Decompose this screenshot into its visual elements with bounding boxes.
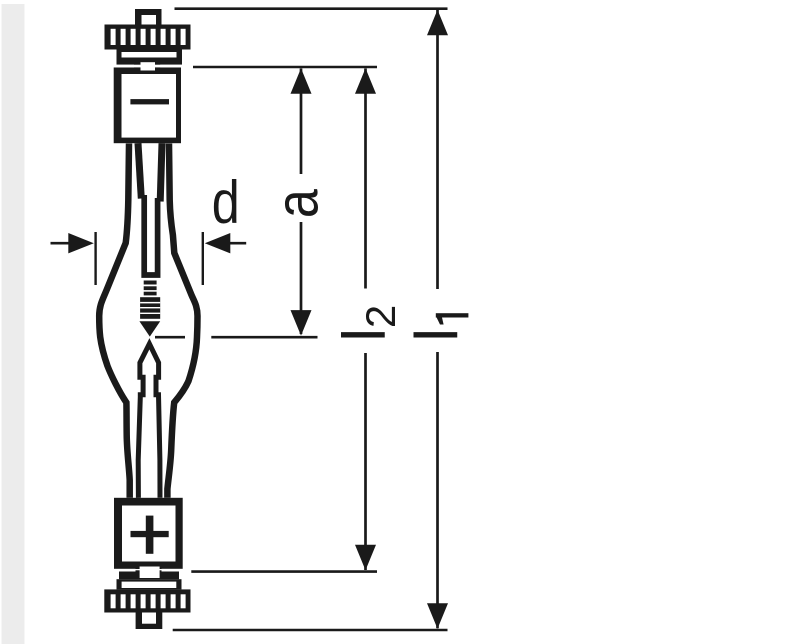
svg-text:a: a [263, 189, 330, 219]
svg-text:d: d [212, 169, 240, 236]
